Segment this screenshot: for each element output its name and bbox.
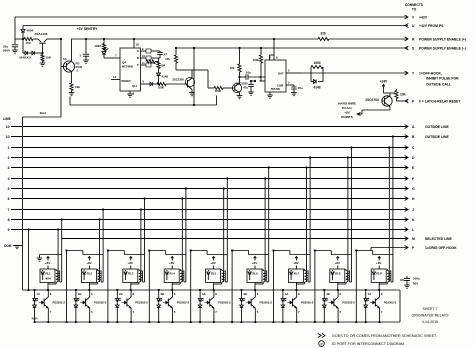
svg-text:RL2: RL2 [87, 272, 93, 276]
svg-text:.05u: .05u [297, 86, 303, 90]
capacitor 100u 50V [400, 276, 420, 288]
node hard-wire note [338, 102, 356, 120]
wire contact risers RL6 [264, 166, 270, 282]
diode LED input RL3 [116, 289, 121, 323]
svg-text:PS2502-2: PS2502-2 [301, 301, 314, 305]
svg-text:+8V: +8V [210, 261, 215, 265]
svg-text:MCT4060: MCT4060 [122, 66, 134, 69]
svg-text:+3V SENTRY: +3V SENTRY [77, 27, 98, 31]
inductor coil RL8 [338, 269, 350, 284]
wire line 10 bus [6, 125, 408, 129]
node CONNECTS TO header [405, 3, 423, 12]
svg-text:4148: 4148 [162, 75, 169, 79]
svg-text:5: 5 [8, 187, 10, 191]
svg-text:1000: 1000 [215, 89, 222, 93]
inductor coil RL3 [131, 269, 143, 284]
svg-text:PS2502-2: PS2502-2 [177, 301, 190, 305]
svg-text:ORIGINATER RELAYS: ORIGINATER RELAYS [411, 314, 449, 318]
wire line 9 tap drop [27, 228, 29, 291]
node pin C [137, 47, 151, 53]
inductor coil RLP [379, 269, 391, 284]
relay RL4 with diode 4004 [164, 269, 179, 283]
wire U left drop [22, 26, 24, 30]
wire line 9 bus [8, 228, 408, 232]
ground 555 [267, 92, 273, 98]
wire 555 out pin 3 [286, 69, 301, 74]
svg-text:4004: 4004 [27, 29, 34, 33]
svg-text:RL8: RL8 [335, 272, 341, 276]
wire collector drop 6mA [60, 38, 62, 67]
node port K [412, 218, 415, 222]
svg-text:J: J [412, 208, 414, 212]
wire RL2 to opto [88, 283, 90, 292]
transistor opto PS2502-2 RLP [368, 290, 397, 323]
capacitor 1u rail [79, 38, 89, 63]
node +8V supply RL6 [252, 257, 257, 270]
svg-text:3A: 3A [202, 292, 206, 296]
ground RL1 contact [37, 255, 62, 262]
relay RL1 with diode 4004 [40, 269, 55, 283]
diode 4148 osc [157, 73, 169, 85]
node port F [412, 177, 414, 181]
wire RL7 to opto [295, 283, 297, 292]
svg-text:SHEET 7: SHEET 7 [423, 307, 438, 311]
wire relay contact chain [67, 251, 393, 255]
svg-text:12: 12 [113, 75, 117, 79]
svg-text:330: 330 [320, 32, 326, 36]
svg-text:4004: 4004 [45, 277, 51, 281]
node +8V supply RL1 [45, 257, 50, 270]
wire contact common drop RL7 [314, 249, 316, 323]
wire contact risers RL5 [223, 177, 229, 282]
svg-text:.01u: .01u [245, 71, 251, 75]
node +8V supply RLP [376, 257, 381, 270]
svg-text:+24V: +24V [380, 80, 388, 84]
node COM ground [4, 244, 23, 249]
svg-text:10K: 10K [46, 56, 52, 60]
svg-text:PS2502-2: PS2502-2 [94, 301, 107, 305]
svg-text:1B: 1B [78, 292, 82, 296]
svg-text:4148: 4148 [313, 86, 320, 90]
svg-text:+8V: +8V [344, 111, 351, 115]
svg-text:7: 7 [8, 208, 10, 212]
resistor 470k [146, 60, 159, 65]
resistor 100 [24, 37, 38, 45]
svg-text:+8V: +8V [169, 261, 174, 265]
diode LED input RL7 [281, 289, 286, 323]
svg-text:HARD WIRE: HARD WIRE [338, 102, 356, 106]
svg-text:LINE: LINE [3, 117, 11, 121]
svg-text:P: P [321, 342, 323, 346]
wire RL1 to opto [47, 283, 49, 292]
wire contact common drop RL6 [272, 249, 274, 323]
wire bottom rail [70, 47, 217, 106]
wire contact common drop RL8 [355, 249, 357, 323]
svg-text:2: 2 [8, 156, 10, 160]
svg-text:+42V: +42V [419, 15, 428, 19]
svg-text:RL4: RL4 [170, 272, 176, 276]
svg-text:PS2502-2: PS2502-2 [384, 301, 397, 305]
transistor opto PS2502-2 RL3 [119, 290, 148, 323]
svg-text:OUTSIDE CALL: OUTSIDE CALL [426, 83, 451, 87]
node LINE label [3, 117, 11, 121]
svg-text:PS2502-2: PS2502-2 [260, 301, 273, 305]
capacitor .01u [240, 71, 266, 80]
wire line 3 bus [8, 166, 408, 170]
node port D [412, 156, 415, 160]
svg-text:10k: 10k [75, 85, 80, 89]
node sheet title [411, 307, 449, 324]
wire latch-relay reset net P [405, 99, 461, 103]
capacitor .05u pin5 [286, 81, 303, 96]
svg-text:4B: 4B [326, 292, 330, 296]
svg-text:+8V: +8V [86, 261, 91, 265]
relay RL3 with diode 4004 [123, 269, 138, 283]
wire contact common drop RL1 [65, 249, 67, 323]
svg-text:2SA1406: 2SA1406 [35, 32, 48, 36]
svg-text:4: 4 [8, 177, 10, 181]
relay RL8 with diode 4004 [330, 269, 345, 283]
svg-text:200V: 200V [3, 49, 10, 53]
transistor opto PS2502-2 RL5 [202, 290, 231, 323]
node port C [412, 146, 415, 150]
svg-text:B: B [137, 56, 139, 60]
svg-text:3: 3 [8, 166, 10, 170]
svg-text:+8V: +8V [128, 261, 133, 265]
resistor 10k Q3 load [165, 47, 192, 70]
svg-text:L: L [412, 228, 414, 232]
svg-text:RL1: RL1 [45, 272, 51, 276]
svg-text:1000: 1000 [313, 61, 320, 65]
wire emitter bus [35, 321, 401, 323]
wire ORIG OFF-HOOK net P [371, 246, 457, 251]
wire line feed drop [22, 117, 24, 290]
transistor opto PS2502-2 RL6 [243, 290, 272, 323]
transistor Q 2SC0704 [357, 93, 408, 116]
op-amp U2 NE555 body [265, 60, 286, 92]
svg-text:POWER SUPPLY ENABLE (−): POWER SUPPLY ENABLE (−) [419, 46, 466, 50]
resistor 1000 on net T [311, 61, 323, 73]
node +8V supply RL7 [293, 257, 298, 270]
svg-text:2A: 2A [119, 292, 123, 296]
svg-text:6: 6 [8, 197, 10, 201]
svg-text:9: 9 [8, 228, 10, 232]
wire contact common drop RL2 [107, 249, 109, 323]
svg-text:555 NE: 555 NE [271, 87, 280, 91]
svg-text:4148 X 2: 4148 X 2 [19, 56, 31, 60]
wire contact risers RL9 [388, 135, 394, 282]
wire RL6 to opto [254, 283, 256, 292]
svg-text:ID PORT FOR INTERCONNECT DIAGR: ID PORT FOR INTERCONNECT DIAGRAM [332, 342, 404, 346]
node legend port [319, 341, 404, 347]
svg-text:1: 1 [8, 146, 10, 150]
svg-text:4A: 4A [285, 292, 289, 296]
wire RL4 to opto [171, 283, 173, 292]
svg-text:10k: 10k [230, 66, 235, 70]
svg-text:RL5: RL5 [211, 272, 217, 276]
svg-text:2M: 2M [161, 64, 166, 68]
svg-text:+8V: +8V [293, 261, 298, 265]
wire line 2 bus [8, 156, 408, 160]
wire right return [399, 290, 401, 322]
transistor opto PS2502-2 RL2 [78, 290, 107, 323]
node pin F [137, 61, 151, 67]
svg-text:SELECTED LINE: SELECTED LINE [425, 237, 452, 241]
node port A [412, 125, 449, 129]
wire line 4 bus [8, 177, 408, 181]
relay RL7 with diode 4004 [288, 269, 303, 283]
svg-text:F: F [412, 177, 414, 181]
wire RL5 to opto [213, 283, 215, 292]
wire RLP to opto [378, 283, 380, 292]
svg-text:INHIBIT PULSE FOR: INHIBIT PULSE FOR [426, 77, 459, 81]
wire RL3 to opto [130, 283, 132, 292]
svg-text:16: 16 [136, 43, 140, 47]
wire contact common drop RL3 [148, 249, 150, 323]
inductor coil RL5 [214, 269, 226, 284]
ground pin 8 [127, 91, 134, 97]
svg-text:PS2502-2: PS2502-2 [342, 301, 355, 305]
wire line 1 bus [8, 146, 408, 150]
diode LED input RL6 [240, 289, 245, 323]
wire line 7 bus [8, 208, 408, 212]
svg-text:2SC2320: 2SC2320 [172, 78, 184, 82]
node port E [412, 166, 415, 170]
node input rail [15, 38, 24, 40]
svg-text:OUTSIDE LINE: OUTSIDE LINE [425, 135, 449, 139]
diode LED input RL1 [32, 289, 38, 323]
svg-text:RL6: RL6 [252, 272, 258, 276]
wire POWER SUPPLY ENABLE (-) net S [176, 46, 466, 50]
svg-text:+8V: +8V [376, 261, 381, 265]
wire line 6 bus [8, 197, 408, 201]
svg-text:RLP: RLP [376, 272, 382, 276]
svg-text:COM: COM [4, 244, 12, 248]
svg-text:RESET: RESET [122, 79, 132, 83]
svg-text:4-14-2016: 4-14-2016 [422, 320, 438, 324]
inductor coil RL4 [172, 269, 184, 284]
relay RL6 with diode 4004 [247, 269, 262, 283]
svg-text:GOES TO OR COMES FROM ANOTHER: GOES TO OR COMES FROM ANOTHER SCHEMATIC … [332, 334, 437, 338]
svg-text:OUT: OUT [278, 72, 284, 76]
svg-text:+8V: +8V [335, 261, 340, 265]
svg-text:10: 10 [6, 125, 10, 129]
transistor opto PS2502-2 RL8 [326, 290, 355, 323]
svg-text:G: G [412, 187, 415, 191]
transistor Q2 PS2540 [61, 39, 83, 83]
transistor opto PS2502-2 RL7 [285, 290, 314, 323]
node port L [412, 228, 414, 232]
diode LED input RL4 [157, 289, 162, 323]
svg-text:-Z: -Z [76, 69, 79, 73]
svg-text:5A: 5A [368, 292, 372, 296]
relay RLP with diode 4004 [371, 269, 386, 283]
diode 4148 on net T [311, 73, 323, 90]
wire line 5 bus [8, 187, 408, 191]
svg-text:1000: 1000 [94, 44, 101, 48]
svg-text:POWER SUPPLY ENABLE (+): POWER SUPPLY ENABLE (+) [419, 37, 466, 41]
wire contact risers RL7 [305, 156, 311, 282]
node +24V [380, 80, 395, 94]
svg-text:4004: 4004 [32, 317, 38, 321]
node +8V supply RL8 [335, 257, 340, 270]
svg-text:F: F [137, 63, 139, 67]
svg-text:100k: 100k [253, 58, 260, 62]
svg-text:47u: 47u [243, 86, 248, 90]
resistor 1000 Q4 base [192, 70, 233, 93]
wire contact common drop RL5 [231, 249, 233, 323]
svg-text:CONNECTS: CONNECTS [405, 3, 423, 7]
inductor coil RL2 [89, 269, 101, 284]
svg-text:100: 100 [25, 41, 30, 45]
resistor 1000 LED [94, 38, 105, 51]
svg-text:10k: 10k [165, 57, 170, 61]
wire 6mA feed [23, 67, 62, 118]
diode LED input RLP [364, 289, 369, 323]
wire +42V net V [15, 15, 428, 19]
wire contact risers RL2 [98, 208, 104, 282]
node +8V supply RL2 [86, 257, 91, 270]
resistor 10k emitter [69, 83, 81, 96]
svg-text:1A: 1A [36, 292, 40, 296]
diode pair 4148 X 2 [19, 39, 43, 60]
transistor Q1 2SA1406 [35, 32, 61, 53]
svg-text:Q4: Q4 [122, 61, 126, 65]
node +8V supply RL3 [128, 257, 133, 270]
wire LED bus [23, 289, 401, 291]
inductor coil RL1 [48, 269, 60, 284]
resistor 10K bias [40, 52, 52, 66]
wire POWER SUPPLY ENABLE (+) net R [71, 37, 466, 41]
resistor 10K pullup [395, 89, 407, 101]
svg-text:50V: 50V [413, 282, 418, 286]
wire pin 12 reset [111, 75, 120, 80]
wire pin 16 supply [133, 38, 139, 48]
capacitor .47 [151, 51, 167, 58]
wire +42V FROM PS net U [23, 24, 444, 28]
inductor coil RL6 [255, 269, 267, 284]
svg-text:3B: 3B [243, 292, 247, 296]
node +8V supply RL4 [169, 257, 174, 270]
node port G [412, 187, 415, 191]
node +3V SENTRY [77, 27, 98, 31]
resistor 2M [157, 58, 166, 73]
transistor Q3 2SC2320 [172, 70, 194, 96]
svg-text:1000: 1000 [158, 86, 165, 90]
wire 555 supply pins 4 8 [269, 38, 278, 60]
wire contact risers RL1 [57, 218, 63, 282]
svg-text:OUTSIDE LINE: OUTSIDE LINE [425, 125, 449, 129]
svg-text:2B: 2B [161, 292, 165, 296]
diode LED input RL2 [74, 289, 79, 323]
svg-text:1=OFF-HOOK,: 1=OFF-HOOK, [419, 71, 442, 75]
svg-text:PS2502-2: PS2502-2 [53, 301, 66, 305]
svg-text:+8V: +8V [252, 261, 257, 265]
wire contact risers RL8 [347, 146, 353, 282]
svg-text:RL7: RL7 [294, 272, 300, 276]
node port H [412, 197, 415, 201]
wire line 10 bus [6, 135, 408, 139]
svg-text:POINTS: POINTS [341, 115, 353, 119]
node pin B [137, 54, 151, 60]
LED indicator [102, 48, 120, 59]
svg-text:8: 8 [8, 218, 10, 222]
wire off-hook inhibit net T [301, 71, 459, 87]
svg-text:M: M [412, 237, 415, 241]
capacitor 22u 200V [3, 39, 18, 53]
node +8V supply RL5 [210, 257, 215, 270]
capacitor 47u [243, 80, 256, 95]
svg-text:COM: COM [277, 84, 284, 88]
diode LED input RL8 [323, 289, 328, 323]
transistor Q4 2SC2320 [232, 77, 248, 99]
svg-text:2SC0704: 2SC0704 [365, 98, 379, 102]
transistor opto PS2502-2 RL4 [161, 290, 190, 323]
svg-text:10K: 10K [400, 93, 407, 97]
svg-text:+42V FROM PS: +42V FROM PS [419, 24, 444, 28]
node port B [412, 135, 449, 139]
svg-text:RL3: RL3 [128, 272, 134, 276]
resistor 1000 base [141, 80, 184, 90]
diode LED input RL5 [198, 289, 203, 323]
wire RL8 to opto [337, 283, 339, 292]
svg-text:Q14: Q14 [132, 84, 137, 88]
relay RL5 with diode 4004 [206, 269, 221, 283]
wire contact common drop RL4 [190, 249, 192, 323]
svg-text:0 = LATCH-RELAY RESET: 0 = LATCH-RELAY RESET [419, 99, 461, 103]
wire contact risers RL4 [181, 187, 187, 282]
svg-text:6mA: 6mA [40, 111, 47, 115]
svg-text:PS2502-2: PS2502-2 [135, 301, 148, 305]
inductor coil RL7 [296, 269, 308, 284]
svg-text:TO ALL: TO ALL [342, 106, 353, 110]
diode 4004 input [21, 29, 34, 40]
wire V left drop [14, 17, 16, 39]
svg-text:TO: TO [412, 8, 417, 12]
wire contact risers RL3 [140, 197, 146, 282]
svg-text:PS2502-2: PS2502-2 [218, 301, 231, 305]
wire SELECTED LINE net M [62, 237, 453, 241]
node port J [412, 208, 414, 212]
svg-text:+8V: +8V [45, 261, 50, 265]
svg-text:1=ORIG OFF-HOOK: 1=ORIG OFF-HOOK [425, 246, 457, 250]
transistor opto PS2502-2 RL1 [36, 290, 65, 323]
svg-text:10: 10 [6, 135, 10, 139]
svg-text:100u: 100u [413, 277, 420, 281]
wire line 8 bus [8, 218, 408, 222]
node legend arrow [318, 334, 437, 338]
resistor 330 [318, 32, 329, 41]
node pin 2 6 labels [260, 75, 262, 83]
resistor 10k Q4 collector [230, 47, 241, 78]
op-amp U1 MCT4060 body [120, 48, 141, 91]
svg-text:.47: .47 [163, 53, 167, 57]
relay RL2 with diode 4004 [81, 269, 96, 283]
resistor 100k [253, 47, 265, 81]
